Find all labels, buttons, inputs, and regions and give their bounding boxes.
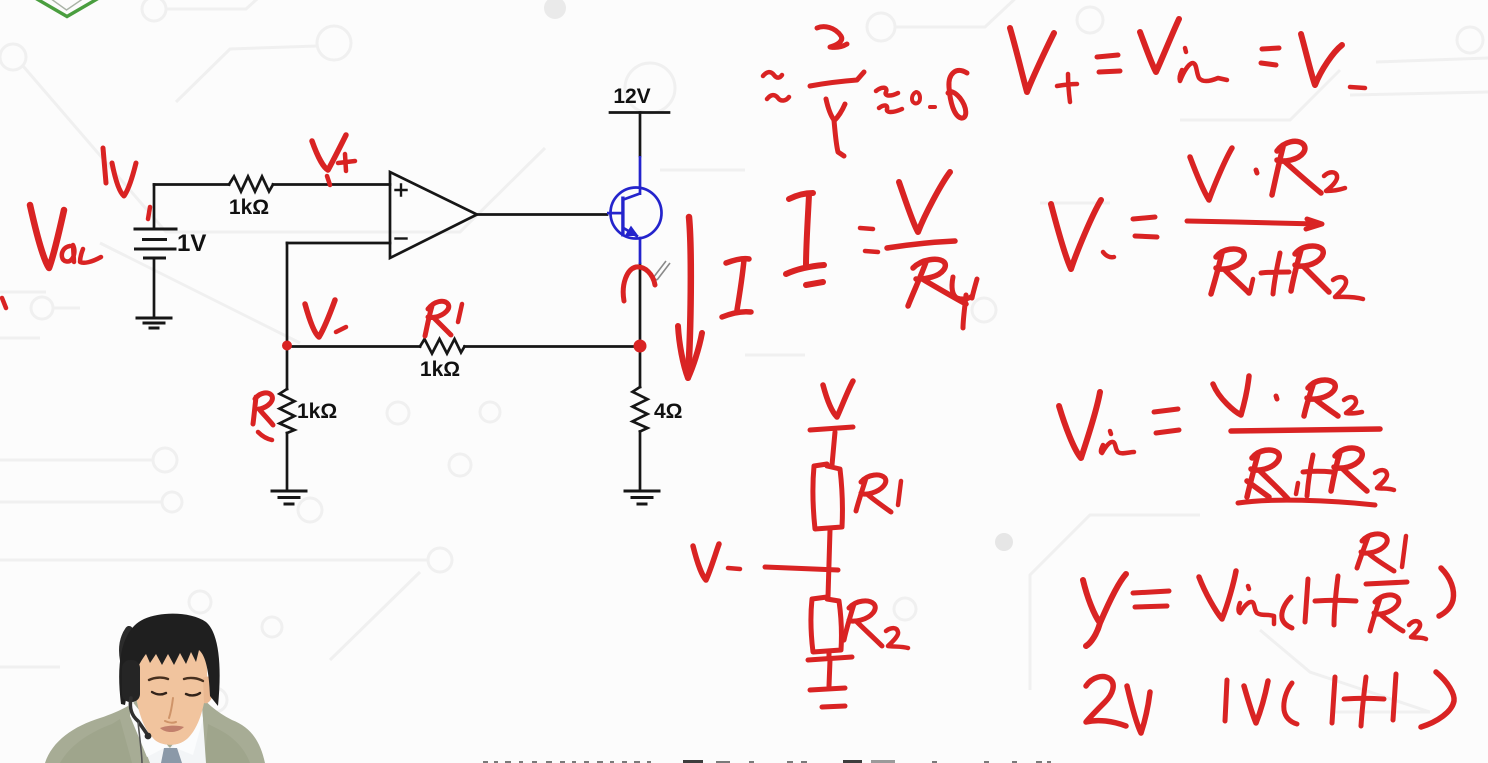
person nose (165, 698, 176, 723)
annotation Vplus equals Vin equals Vminus (1010, 28, 1054, 92)
wire resistor to op-amp plus input (273, 183, 390, 186)
person collar left (130, 700, 168, 757)
wire 4Ohm to ground (639, 432, 642, 491)
Q1 base bar (621, 197, 624, 237)
annotation tick near battery (148, 207, 150, 219)
node emitter junction dot (634, 340, 647, 353)
person headset band (123, 630, 129, 672)
wire minus input down to node Vminus (286, 243, 289, 344)
svg-text:1V: 1V (177, 230, 206, 257)
wire R1 to emitter node (465, 345, 641, 348)
wire battery bottom (153, 258, 156, 317)
wire 12V rail down (black part) (639, 113, 642, 157)
svg-text:1kΩ: 1kΩ (420, 358, 460, 381)
Q1 emitter arrow (626, 227, 638, 236)
wire R2 to ground (286, 433, 289, 490)
annotation I equals V over R4 (786, 193, 824, 285)
transistor Q1 (blue) (607, 156, 662, 264)
annotation Vminus label (305, 300, 335, 337)
battery V1 plates (135, 229, 176, 258)
resistor 1kOhm input zigzag (229, 177, 273, 192)
gray pad blob 2 (995, 533, 1013, 551)
Q1 base stub (607, 212, 623, 215)
person eyebrows (149, 678, 203, 681)
annotation 2V and 1V(1+1) (1086, 677, 1126, 726)
wire battery top vertical (153, 185, 156, 230)
svg-text:1kΩ: 1kΩ (297, 400, 337, 423)
annotation I label (722, 259, 751, 317)
divider top bar (810, 427, 853, 430)
person cardigan torso (45, 688, 265, 763)
divider resistor R2 box (811, 597, 841, 652)
person neck shadow (153, 700, 187, 734)
green logo chevron inner (47, 0, 87, 10)
person mouth (160, 726, 184, 732)
person hair (119, 614, 219, 706)
annotation Vminus equals VR2 over R1+R2 (1051, 200, 1101, 269)
wire node Vminus to resistor R1 (287, 345, 420, 348)
node Vminus junction dot (282, 341, 292, 351)
annotation Vin equals VR2 over R1+R2 underlined (1059, 392, 1100, 458)
svg-text:4Ω: 4Ω (654, 400, 683, 423)
person shirt (128, 705, 206, 763)
annotation approx 2/4 = 0.5 (763, 72, 789, 100)
divider wire R1 to R2 (828, 530, 830, 597)
divider Vminus label and lead (693, 544, 719, 580)
annotation tick left edge (2, 298, 6, 308)
Q1 collector diagonal (624, 194, 641, 200)
ground below R2 (272, 491, 306, 504)
annotation tick on plus wire (327, 176, 330, 185)
gray pad blob (544, 0, 566, 19)
divider wire V to R1 (832, 432, 835, 465)
op-amp plus pin mark (396, 185, 407, 196)
wire battery to resistor (154, 183, 229, 186)
Q1 emitter diagonal (624, 228, 639, 237)
ground below 4Ohm (625, 491, 659, 504)
person headset mic tip (145, 733, 152, 740)
ground battery (137, 318, 171, 328)
Q1 emitter wire (639, 237, 642, 264)
divider R2 label (844, 601, 882, 646)
svg-text:1kΩ: 1kΩ (229, 196, 269, 219)
annotation Vin label big (30, 205, 64, 268)
person headset earcup (122, 660, 140, 702)
annotation squiggle on emitter (623, 267, 655, 301)
Q1 circle (611, 188, 662, 239)
annotation V equals Vin(1+R1/R2) (1083, 574, 1126, 646)
divider ground (827, 652, 832, 658)
annotation R2 label (253, 393, 273, 425)
annotation current arrow down (688, 217, 691, 377)
pen tool cursor (653, 261, 670, 280)
person eyes (152, 692, 200, 695)
wire op-amp minus input horizontal (287, 242, 390, 245)
person tie (161, 748, 182, 763)
person headset mic boom (130, 698, 147, 734)
wire emitter node down (black part) (639, 264, 642, 387)
op-amp minus pin mark (396, 237, 407, 239)
person cardigan texture right (204, 724, 250, 763)
annotation R1 label (425, 301, 451, 336)
svg-text:12V: 12V (613, 85, 650, 108)
person collar right (173, 702, 203, 755)
resistor R1 1kOhm zigzag (420, 339, 465, 354)
wire op-amp output to transistor base (477, 213, 607, 216)
person headset wire (138, 722, 142, 763)
divider R1 label (856, 475, 891, 512)
wire node to resistor R2 (286, 348, 289, 389)
op-amp U1 triangle (390, 172, 477, 258)
Q1 collector wire from rail (639, 156, 642, 195)
resistor R2 1kOhm zigzag (280, 389, 295, 433)
person neck (151, 688, 189, 745)
person cardigan texture left (60, 719, 132, 763)
annotation 1v source value (103, 148, 106, 183)
green logo chevron outer (30, 0, 104, 17)
person face (134, 623, 207, 745)
12V supply rail bar (610, 111, 669, 114)
resistor 4Ohm zigzag (633, 387, 648, 432)
annotation hand-drawn divider V top (823, 381, 853, 417)
person right ear (203, 676, 214, 703)
annotation Vplus label (312, 135, 346, 170)
divider resistor R1 box (813, 464, 842, 529)
